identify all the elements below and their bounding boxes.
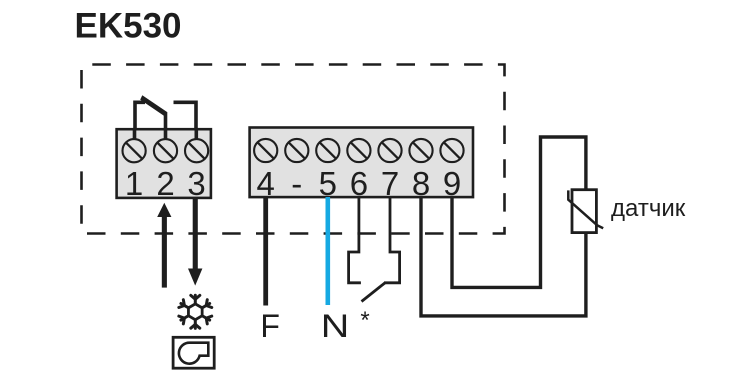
- svg-text:N: N: [321, 308, 350, 344]
- svg-text:F: F: [260, 308, 280, 344]
- svg-text:датчик: датчик: [611, 195, 686, 222]
- svg-text:2: 2: [156, 165, 174, 202]
- svg-text:5: 5: [319, 165, 337, 202]
- svg-text:8: 8: [412, 165, 430, 202]
- svg-text:7: 7: [381, 165, 399, 202]
- svg-text:3: 3: [187, 165, 205, 202]
- svg-text:4: 4: [257, 165, 275, 202]
- svg-text:9: 9: [443, 165, 461, 202]
- svg-text:EK530: EK530: [75, 7, 182, 46]
- svg-text:*: *: [360, 307, 369, 334]
- svg-text:-: -: [291, 165, 302, 202]
- svg-text:6: 6: [350, 165, 368, 202]
- svg-text:1: 1: [125, 165, 143, 202]
